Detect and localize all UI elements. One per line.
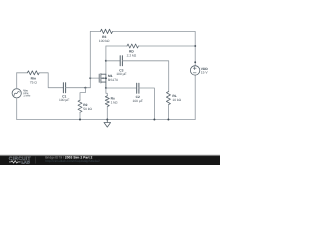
wire Rin to corner down — [39, 73, 63, 88]
svg-text:15 V: 15 V — [201, 71, 209, 75]
svg-text:10 kΩ: 10 kΩ — [172, 98, 181, 102]
label R3 100k — [99, 35, 110, 43]
svg-text:100 µF: 100 µF — [116, 72, 126, 76]
label Vin sine 1kHz — [23, 88, 31, 97]
wire RL to rail — [167, 105, 169, 120]
node VDD RD junction — [194, 45, 196, 47]
node rail R2 — [79, 119, 81, 121]
wire Rs to rail — [106, 107, 108, 120]
wire Vin top lead — [16, 73, 18, 89]
label C2 100uF — [133, 95, 143, 103]
label R2 50k — [83, 103, 92, 111]
wire drain corner to RD — [106, 45, 127, 47]
svg-text:1 kHz: 1 kHz — [23, 93, 31, 97]
wire R2 jog — [80, 88, 85, 101]
capacitor C1 — [63, 83, 65, 93]
svg-text:LAB: LAB — [21, 160, 30, 165]
wire ground rail — [17, 119, 196, 121]
wire up to gate node — [89, 78, 91, 88]
node source junction — [105, 87, 107, 89]
wire C1 to gate corner — [66, 87, 91, 89]
resistor RD — [127, 44, 138, 48]
wire VDD bottom to rail — [194, 75, 196, 119]
capacitor C2 — [137, 83, 139, 93]
label C1 100uF — [59, 94, 69, 102]
wire gate node up to rail R3 — [90, 31, 100, 78]
label C3 100uF — [116, 69, 126, 76]
node VDD terminal — [194, 61, 196, 63]
voltage source V1 Vin sine — [12, 89, 21, 98]
resistor Rs — [105, 96, 109, 107]
label VDD 15V — [201, 67, 209, 75]
svg-text:1 kΩ: 1 kΩ — [111, 100, 118, 104]
wire source to C2 — [106, 87, 137, 89]
wire gate node to MOSFET gate — [90, 77, 99, 79]
footer text line 1 — [45, 155, 100, 163]
node gate junction — [89, 77, 91, 79]
capacitor C3 — [120, 56, 122, 66]
label Rin 75 — [30, 77, 38, 85]
resistor R3 — [101, 29, 113, 33]
wire Rs jog — [106, 88, 107, 96]
node rail ground — [106, 119, 108, 121]
node R2 tap — [84, 87, 86, 89]
svg-text:BS170: BS170 — [108, 78, 118, 82]
svg-text:75 Ω: 75 Ω — [30, 80, 38, 84]
node rail C2 — [153, 119, 155, 121]
wire R2 to rail — [79, 112, 81, 119]
wire Vin bottom lead — [16, 98, 18, 120]
wire drain vertical — [105, 46, 107, 74]
wire drain to C3 — [106, 60, 120, 62]
transistor M1 — [99, 74, 106, 89]
node rail RL — [167, 119, 169, 121]
CircuitLab logo — [9, 156, 31, 165]
svg-text:100 µF: 100 µF — [59, 98, 69, 102]
wire Vin to Rin — [17, 72, 28, 74]
wire RD to VDD rail — [138, 45, 195, 47]
svg-text:100 kΩ: 100 kΩ — [99, 39, 110, 43]
resistor RL — [166, 92, 170, 105]
voltage source V2 VDD — [190, 66, 199, 75]
label M1 BS170 — [108, 74, 118, 82]
wire C2 corner down to rail — [139, 88, 155, 120]
label RD 2.2k — [127, 50, 137, 58]
logo separator — [34, 157, 37, 164]
svg-text:2.2 kΩ: 2.2 kΩ — [127, 54, 137, 58]
svg-text:50 kΩ: 50 kΩ — [83, 107, 92, 111]
svg-text:100 µF: 100 µF — [133, 99, 143, 103]
node drain C3 tap — [105, 60, 107, 62]
label Rs 1k — [111, 97, 118, 105]
ground — [104, 120, 111, 128]
wire R3 rail to VDD corner — [113, 31, 196, 65]
resistor R2 — [78, 100, 82, 112]
node M1 body-source tie — [105, 77, 107, 79]
svg-text:http://circuitlab.com/c6xq4sdq: http://circuitlab.com/c6xq4sdqp54s4w2 — [45, 159, 100, 163]
label RL 10k — [172, 94, 181, 102]
resistor Rin — [27, 71, 39, 75]
wire C3 to RL corner — [122, 61, 168, 92]
